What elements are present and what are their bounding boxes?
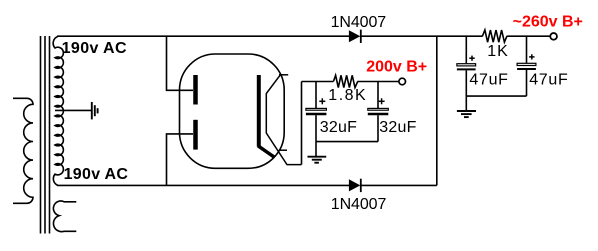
wire top rail (diode cathode to 47uF junction 1) bbox=[361, 35, 483, 37]
tube plate top (anode) bbox=[193, 75, 198, 105]
svg-text:1N4007: 1N4007 bbox=[331, 14, 387, 31]
svg-text:32uF: 32uF bbox=[379, 119, 416, 136]
ground at center tap (rotated) bbox=[92, 102, 98, 119]
diode 1N4007 bottom bbox=[349, 179, 361, 192]
transformer heater winding bbox=[53, 201, 76, 232]
svg-text:190v AC: 190v AC bbox=[62, 40, 127, 57]
transformer core bbox=[41, 36, 50, 234]
capacitor 32uF #1 plates bbox=[306, 108, 327, 114]
capacitor 47uF #2 top lead bbox=[526, 36, 528, 63]
wire plate feed bottom bbox=[167, 134, 194, 186]
wire cathode riser to 200v network bbox=[301, 82, 303, 165]
svg-text:47uF: 47uF bbox=[469, 71, 508, 88]
capacitor 47uF #1 top lead bbox=[465, 36, 467, 63]
wire bottom rail (diode cathode to right riser) bbox=[361, 184, 437, 186]
wire 260v rail to terminal bbox=[507, 35, 551, 37]
wire right riser joining rectifier outputs bbox=[436, 36, 438, 185]
resistor 1.8K bbox=[333, 75, 357, 87]
wire 200v rail to terminal bbox=[357, 81, 399, 83]
capacitor 47uF #2 bottom lead bbox=[526, 70, 528, 96]
plus sign 47uF #1 bbox=[469, 56, 474, 61]
capacitor 32uF #1 top lead bbox=[315, 82, 317, 109]
svg-text:190v AC: 190v AC bbox=[64, 166, 129, 183]
wire 260v network bottom bbox=[466, 95, 526, 97]
svg-text:200v B+: 200v B+ bbox=[366, 59, 427, 76]
wire 200v network top rail bbox=[302, 81, 334, 83]
svg-text:1K: 1K bbox=[487, 43, 509, 60]
wire center tap bbox=[55, 109, 91, 111]
capacitor 32uF #2 plates bbox=[368, 108, 389, 114]
wire top rail (secondary top to diode anode) bbox=[57, 35, 349, 37]
wire 200v network bottom bbox=[316, 141, 378, 143]
svg-text:1N4007: 1N4007 bbox=[331, 196, 387, 213]
wire bottom rail (secondary bottom to diode anode) bbox=[57, 184, 349, 186]
tube plate bottom (anode) bbox=[193, 120, 198, 150]
tube cathode bar bbox=[257, 75, 261, 147]
transformer secondary winding bbox=[53, 36, 63, 185]
wire plate feed top bbox=[167, 36, 194, 90]
tube pin tick bottom bbox=[279, 149, 287, 151]
plus sign 32uF #2 bbox=[379, 98, 385, 104]
transformer primary winding bbox=[13, 98, 33, 203]
plus sign 47uF #2 bbox=[529, 54, 534, 59]
resistor 1K bbox=[482, 30, 507, 42]
capacitor 47uF #1 bottom lead bbox=[465, 70, 467, 96]
svg-text:~260v B+: ~260v B+ bbox=[513, 14, 583, 31]
capacitor 32uF #1 bottom lead bbox=[315, 115, 317, 141]
capacitor 32uF #2 top lead bbox=[377, 82, 379, 109]
svg-text:47uF: 47uF bbox=[529, 71, 568, 88]
svg-text:1.8K: 1.8K bbox=[328, 87, 367, 104]
tube cathode foot bbox=[258, 146, 275, 158]
plus sign 32uF #1 bbox=[319, 98, 325, 104]
ground 260v network bbox=[457, 96, 476, 117]
ground 200v network bbox=[308, 142, 327, 163]
tube envelope bbox=[180, 54, 285, 168]
tube pin tick top bbox=[279, 74, 288, 76]
svg-text:32uF: 32uF bbox=[320, 119, 357, 136]
capacitor 32uF #2 bottom lead bbox=[377, 115, 379, 141]
capacitor 47uF #2 plates bbox=[517, 63, 536, 69]
diode 1N4007 top bbox=[349, 30, 361, 43]
terminal 200v B+ bbox=[399, 78, 406, 85]
tube filament bbox=[266, 75, 301, 164]
terminal ~260v B+ bbox=[550, 33, 557, 40]
capacitor 47uF #1 plates bbox=[457, 64, 476, 70]
